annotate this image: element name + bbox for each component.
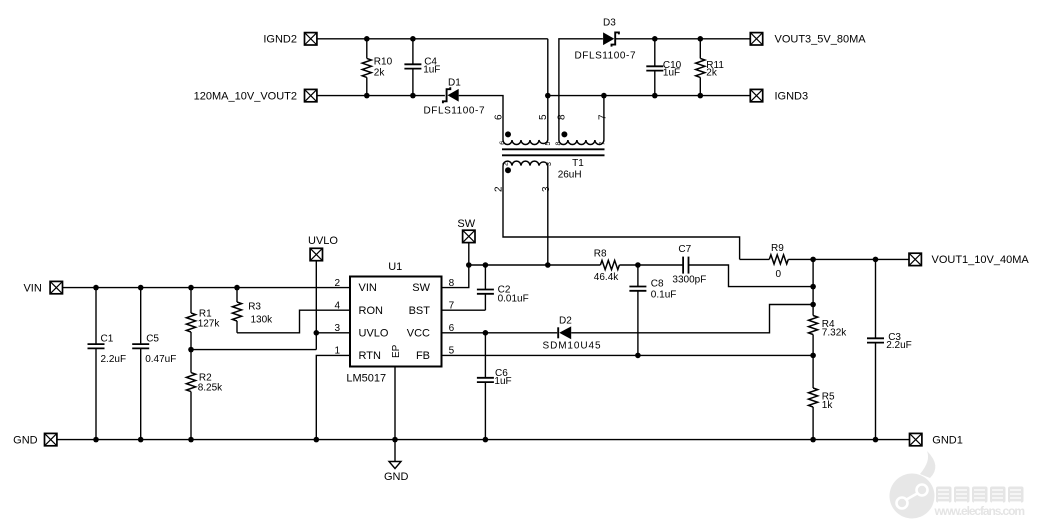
T1 winding 8-7 [559,140,604,145]
resistor R1 127k [186,288,220,350]
svg-text:46.4k: 46.4k [594,272,619,283]
node C10 top [652,36,658,42]
port IGND3 [750,89,808,102]
port VIN [23,281,62,294]
svg-text:RTN: RTN [359,350,381,362]
node C1 bottom [93,437,99,443]
node R11 bottom [698,93,704,99]
svg-text:C1: C1 [101,334,114,345]
svg-text:GND: GND [13,434,38,446]
svg-text:FB: FB [416,350,430,362]
wire IGND3 row [548,95,751,97]
ground symbol GND [384,462,409,484]
svg-text:7: 7 [598,114,609,120]
wire VOUT2 row [317,95,445,97]
capacitor C1 2.2uF [88,288,127,440]
diode D3 DFLS1100-7 [575,18,636,62]
node C3 bottom [873,437,879,443]
svg-text:R8: R8 [594,249,607,260]
wire C7 out jog [689,265,814,287]
svg-text:T1: T1 [572,158,584,169]
capacitor C2 0.01uF [477,265,529,310]
svg-text:7.32k: 7.32k [822,328,847,339]
svg-text:130k: 130k [251,314,274,325]
node C6 bottom [483,437,489,443]
svg-text:SW: SW [412,282,430,294]
T1 dot pin8 [561,131,567,137]
node R1 top [188,285,194,291]
node R1/R2 junction [188,347,194,353]
wire R3 to RON pin [237,310,350,333]
node pin7 junction [601,93,607,99]
T1 dot pin6 [505,131,511,137]
svg-text:UVLO: UVLO [308,235,338,247]
node R4/R5 FB junction [810,353,816,359]
svg-text:IGND2: IGND2 [263,34,297,46]
node SW junction [466,262,472,268]
resistor R10 2k [362,39,392,96]
svg-text:6: 6 [494,114,505,120]
svg-text:GND: GND [384,471,409,483]
capacitor C7 3300pF [672,244,706,285]
svg-text:D3: D3 [603,18,616,29]
resistor R11 2k [696,39,725,96]
wire pin7 stub [442,309,486,311]
node C4 bottom [410,93,416,99]
svg-text:VIN: VIN [23,282,41,294]
wire SW row [469,264,601,266]
node C2 top [483,262,489,268]
svg-text:4: 4 [334,301,340,312]
wire D2 anode jog [571,305,813,333]
svg-text:LM5017: LM5017 [346,373,386,385]
capacitor C8 0.1uF [629,265,676,355]
svg-text:6: 6 [500,141,507,145]
wire EP to ground [394,367,396,462]
svg-text:R9: R9 [771,243,784,254]
svg-text:5: 5 [545,142,552,146]
wire GND rail [57,439,910,441]
wire T1 pin7 drop [603,96,605,140]
svg-text:0.47uF: 0.47uF [145,354,176,365]
capacitor C3 2.2uF [867,259,912,439]
svg-text:GND1: GND1 [932,434,963,446]
svg-text:0: 0 [776,269,782,280]
node R11 top [698,36,704,42]
wire D1 cathode to T1 pin6 [459,96,503,140]
svg-text:C7: C7 [678,244,691,255]
svg-text:D1: D1 [448,78,461,89]
T1 winding 6-5 [503,140,548,145]
svg-text:U1: U1 [388,261,402,273]
wire VCC row [442,332,558,334]
node R10 bottom [364,93,370,99]
wire FB row [442,354,814,356]
port UVLO [308,235,338,261]
svg-text:3: 3 [541,186,552,192]
port SW [457,218,475,243]
watermark elecfans [890,451,1026,519]
svg-text:127k: 127k [198,319,221,330]
wire pin8 jog [442,265,469,288]
svg-text:R3: R3 [248,302,261,313]
svg-text:7: 7 [599,142,606,146]
svg-text:RON: RON [359,305,384,317]
transformer T1 26uH [494,114,609,192]
node T1 pin3 SW junction [545,262,551,268]
node R3 top [234,285,240,291]
svg-text:SW: SW [457,218,475,230]
node C1 top [93,285,99,291]
wire IGND2 rail [317,38,548,40]
node C8 bottom [635,353,641,359]
node C10 bottom [652,93,658,99]
node D2 join [810,302,816,308]
node R2 bottom [188,437,194,443]
node UVLO/pin3 junction [314,330,320,336]
svg-text:3: 3 [334,323,340,334]
svg-text:1k: 1k [822,400,834,411]
wire R8 to C7 [619,264,683,266]
svg-text:1uF: 1uF [663,68,680,79]
T1 winding 2-3 [503,161,548,166]
svg-text:D2: D2 [559,315,572,326]
node C5 top [138,285,144,291]
resistor R4 7.32k [809,316,848,356]
node C3 top [873,257,879,263]
node C8 top [635,262,641,268]
wire T1 pin8 riser to D3 [559,39,603,140]
svg-text:5: 5 [538,114,549,120]
svg-text:DFLS1100-7: DFLS1100-7 [424,106,485,117]
svg-text:0.1uF: 0.1uF [651,290,677,301]
svg-text:DFLS1100-7: DFLS1100-7 [575,51,636,62]
node RTN ground junction [314,437,320,443]
wire VIN rail [63,287,351,289]
diode D2 SDM10U45 [543,315,601,351]
port IGND2 [263,33,317,46]
capacitor C6 1uF [477,333,512,440]
svg-text:1: 1 [334,346,340,357]
wire feedback column [812,259,814,315]
T1 core [502,148,605,150]
svg-text:VCC: VCC [407,327,430,339]
svg-text:2.2uF: 2.2uF [101,354,127,365]
port VOUT1_10V_40MA [909,253,1029,266]
port GND1 [910,433,963,446]
capacitor C5 0.47uF [132,288,176,440]
svg-text:1uF: 1uF [423,65,440,76]
port 120MA_10V_VOUT2 [194,89,317,102]
svg-text:2k: 2k [706,68,718,79]
resistor R3 130k [232,288,273,333]
wire UVLO drop [315,261,317,350]
svg-text:8: 8 [556,114,567,120]
op-amp U1 LM5017 [346,261,441,385]
svg-text:UVLO: UVLO [359,327,389,339]
node pin5/IGND3 junction [545,93,551,99]
diode D1 DFLS1100-7 [424,78,485,117]
node C5 bottom [138,437,144,443]
capacitor C10 1uF [646,39,681,96]
svg-text:EP: EP [391,344,402,358]
svg-text:VIN: VIN [359,282,377,294]
svg-text:8.25k: 8.25k [198,382,223,393]
node C4 top [410,36,416,42]
capacitor C4 1uF [404,39,440,96]
wire T1 pin5 drop [547,39,549,140]
port GND [13,433,57,446]
svg-text:VOUT3_5V_80MA: VOUT3_5V_80MA [775,34,867,46]
wire D3 cathode rail [616,38,750,40]
node R9/VOUT1 junction [810,257,816,263]
svg-text:BST: BST [409,305,431,317]
svg-text:1uF: 1uF [494,376,511,387]
svg-text:8: 8 [556,142,563,146]
svg-text:VOUT1_10V_40MA: VOUT1_10V_40MA [932,254,1030,266]
resistor R2 8.25k [186,350,223,440]
T1 dot pin2 [505,167,511,173]
svg-text:3: 3 [546,162,553,166]
resistor R5 1k [809,355,836,439]
wire SW drop [468,243,470,265]
svg-text:26uH: 26uH [558,170,582,181]
svg-text:IGND3: IGND3 [775,90,809,102]
svg-text:0.01uF: 0.01uF [498,293,529,304]
wire divider row [191,349,316,351]
resistor R8 46.4k [594,249,620,284]
svg-text:2k: 2k [374,67,386,78]
svg-text:R10: R10 [374,57,393,68]
svg-text:3300pF: 3300pF [672,274,706,285]
node EP ground junction [392,437,398,443]
wire T1 pin3 drop to SW row [547,166,549,265]
wire pin3 stub [316,332,350,334]
svg-text:2: 2 [334,278,340,289]
svg-text:2: 2 [502,162,509,166]
node R5 bottom [810,437,816,443]
svg-text:2.2uF: 2.2uF [886,340,912,351]
svg-text:120MA_10V_VOUT2: 120MA_10V_VOUT2 [194,90,297,102]
port VOUT3_5V_80MA [750,33,866,46]
node C6 top [483,330,489,336]
svg-text:www.elecfans.com: www.elecfans.com [934,504,1026,518]
node C7 join [810,284,816,290]
node R10 top [364,36,370,42]
svg-text:C8: C8 [651,279,664,290]
svg-text:SDM10U45: SDM10U45 [543,341,601,352]
wire RTN to ground [316,355,350,439]
resistor R9 0 [740,243,909,280]
svg-text:C5: C5 [146,334,159,345]
wire T1 pin2 jog to R9 [503,166,740,260]
